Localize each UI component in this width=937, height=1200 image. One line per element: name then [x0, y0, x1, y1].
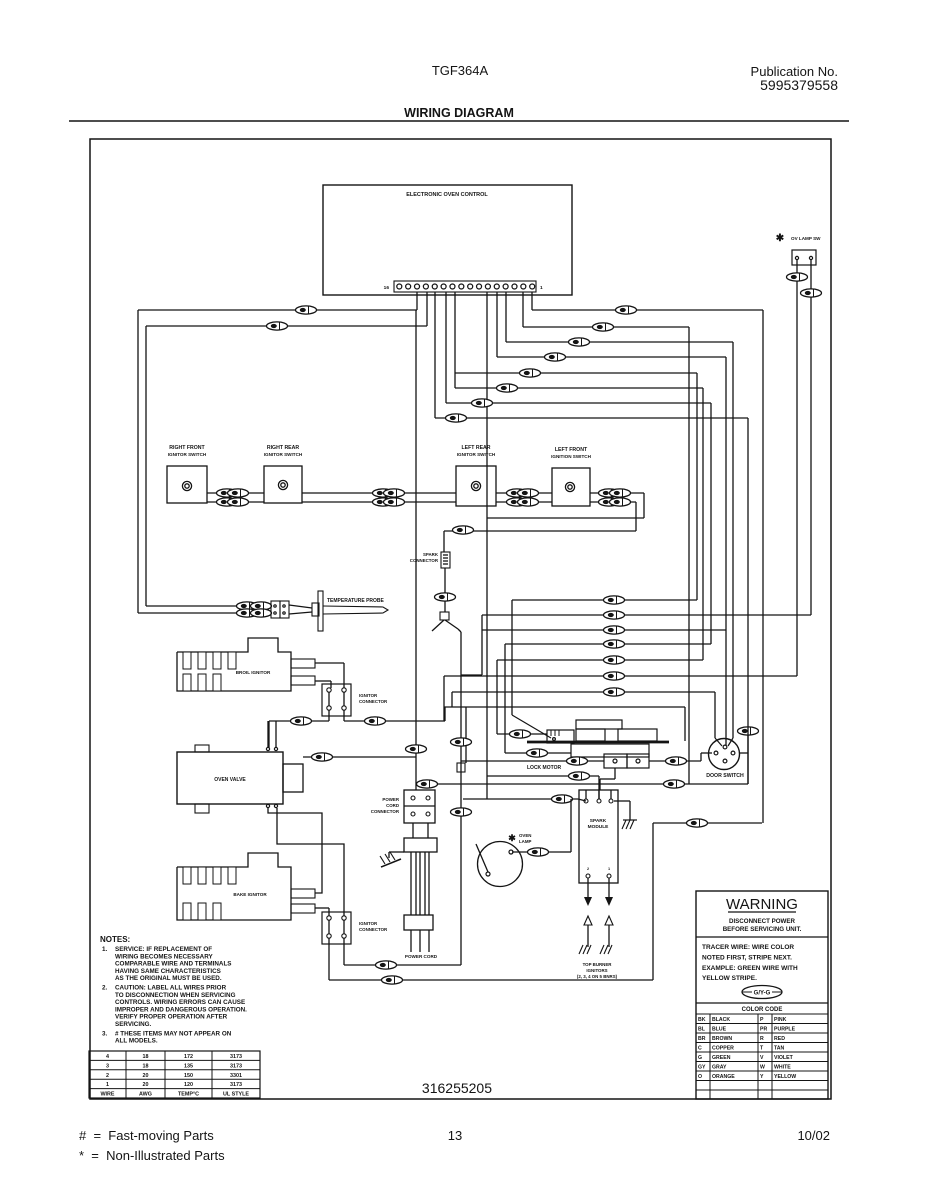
svg-text:5995379558: 5995379558 [760, 77, 838, 93]
svg-text:GREEN: GREEN [712, 1055, 731, 1061]
svg-text:COPPER: COPPER [712, 1046, 734, 1052]
svg-text:150: 150 [184, 1073, 193, 1079]
svg-text:W: W [760, 1065, 765, 1071]
svg-text:PR: PR [760, 1027, 767, 1033]
svg-text:3173: 3173 [230, 1082, 242, 1088]
svg-text:2: 2 [106, 1073, 109, 1079]
svg-text:TEMPERATURE PROBE: TEMPERATURE PROBE [327, 598, 385, 604]
svg-text:LEFT FRONT: LEFT FRONT [555, 447, 588, 453]
svg-text:POWER CORD: POWER CORD [405, 954, 438, 959]
svg-text:HAVING SAME CHARACTERISTICS: HAVING SAME CHARACTERISTICS [115, 968, 221, 975]
svg-text:IMPROPER AND DANGEROUS OPERATI: IMPROPER AND DANGEROUS OPERATION. [115, 1006, 247, 1013]
svg-text:172: 172 [184, 1054, 193, 1060]
svg-text:# THESE ITEMS MAY NOT APPEAR O: # THESE ITEMS MAY NOT APPEAR ON [115, 1030, 232, 1037]
svg-text:WIRING DIAGRAM: WIRING DIAGRAM [404, 106, 514, 120]
svg-text:(2, 3, 4 ON 5 BNRS): (2, 3, 4 ON 5 BNRS) [577, 974, 618, 979]
svg-text:SERVICE: IF REPLACEMENT OF: SERVICE: IF REPLACEMENT OF [115, 946, 212, 953]
svg-text:OV LAMP SW: OV LAMP SW [791, 236, 821, 241]
svg-text:135: 135 [184, 1063, 193, 1069]
svg-text:120: 120 [184, 1082, 193, 1088]
svg-text:TRACER WIRE: WIRE COLOR: TRACER WIRE: WIRE COLOR [702, 944, 794, 951]
svg-text:IGNITORS: IGNITORS [586, 968, 607, 973]
svg-text:ELECTRONIC OVEN CONTROL: ELECTRONIC OVEN CONTROL [406, 192, 488, 198]
svg-text:BEFORE SERVICING UNIT.: BEFORE SERVICING UNIT. [723, 926, 802, 933]
svg-text:✱: ✱ [508, 833, 516, 843]
svg-text:CONNECTOR: CONNECTOR [359, 699, 388, 704]
svg-text:TO DISCONNECTION WHEN SERVICIN: TO DISCONNECTION WHEN SERVICING [115, 992, 236, 999]
svg-text:WIRING BECOMES NECESSARY: WIRING BECOMES NECESSARY [115, 953, 214, 960]
svg-text:LEFT REAR: LEFT REAR [461, 445, 490, 451]
svg-text:G/Y-G: G/Y-G [754, 991, 771, 997]
svg-text:1: 1 [608, 867, 610, 871]
svg-text:IGNITOR SWITCH: IGNITOR SWITCH [168, 452, 207, 457]
svg-text:BROIL IGNITOR: BROIL IGNITOR [236, 670, 271, 675]
svg-text:PINK: PINK [774, 1017, 787, 1023]
svg-text:316255205: 316255205 [422, 1080, 492, 1096]
svg-text:18: 18 [143, 1054, 149, 1060]
svg-text:RIGHT REAR: RIGHT REAR [267, 445, 300, 451]
svg-text:P: P [760, 1017, 764, 1023]
svg-text:G: G [698, 1055, 702, 1061]
svg-text:VIOLET: VIOLET [774, 1055, 794, 1061]
svg-text:WHITE: WHITE [774, 1065, 791, 1071]
svg-text:3173: 3173 [230, 1063, 242, 1069]
svg-text:20: 20 [143, 1073, 149, 1079]
svg-text:3301: 3301 [230, 1073, 242, 1079]
svg-text:3: 3 [106, 1063, 109, 1069]
svg-text:✱: ✱ [776, 233, 785, 244]
svg-text:20: 20 [143, 1082, 149, 1088]
svg-text:3.: 3. [102, 1030, 108, 1037]
svg-text:BAKE IGNITOR: BAKE IGNITOR [233, 892, 267, 897]
svg-text:WARNING: WARNING [726, 896, 798, 913]
svg-text:CONNECTOR: CONNECTOR [371, 809, 400, 814]
svg-text:13: 13 [448, 1128, 462, 1143]
svg-text:2: 2 [587, 867, 589, 871]
svg-text:CORD: CORD [386, 803, 399, 808]
svg-text:YELLOW STRIPE.: YELLOW STRIPE. [702, 975, 757, 982]
svg-text:1.: 1. [102, 946, 108, 953]
svg-text:V: V [760, 1055, 764, 1061]
svg-text:CONTROLS. WIRING ERRORS CAN C: CONTROLS. WIRING ERRORS CAN CAUSE [115, 999, 245, 1006]
svg-text:DOOR SWITCH: DOOR SWITCH [706, 773, 744, 779]
svg-text:NOTED FIRST, STRIPE NEXT.: NOTED FIRST, STRIPE NEXT. [702, 954, 792, 961]
svg-text:COMPARABLE WIRE AND TERMINALS: COMPARABLE WIRE AND TERMINALS [115, 961, 232, 968]
svg-text:POWER: POWER [382, 797, 399, 802]
svg-text:ALL MODELS.: ALL MODELS. [115, 1038, 158, 1045]
svg-text:OVEN VALVE: OVEN VALVE [214, 777, 246, 783]
svg-text:LAMP: LAMP [519, 839, 532, 844]
svg-text:R: R [760, 1036, 764, 1042]
svg-text:IGNITOR: IGNITOR [359, 921, 378, 926]
svg-text:WIRE: WIRE [100, 1092, 114, 1098]
svg-text:10/02: 10/02 [797, 1128, 830, 1143]
svg-text:IGNITOR: IGNITOR [359, 693, 378, 698]
svg-text:# = Fast-moving Parts: # = Fast-moving Parts [79, 1128, 214, 1143]
svg-text:TOP BURNER: TOP BURNER [583, 962, 613, 967]
svg-text:GRAY: GRAY [712, 1065, 727, 1071]
svg-text:Y: Y [760, 1074, 764, 1080]
svg-text:EXAMPLE: GREEN WIRE WITH: EXAMPLE: GREEN WIRE WITH [702, 965, 798, 972]
svg-text:3173: 3173 [230, 1054, 242, 1060]
svg-text:16: 16 [384, 285, 390, 291]
svg-text:NOTES:: NOTES: [100, 935, 130, 944]
svg-text:TAN: TAN [774, 1046, 785, 1052]
svg-text:BROWN: BROWN [712, 1036, 732, 1042]
svg-text:1: 1 [540, 285, 543, 291]
svg-text:CAUTION: LABEL ALL WIRES PRI: CAUTION: LABEL ALL WIRES PRIOR [115, 985, 227, 992]
svg-text:C: C [698, 1046, 702, 1052]
svg-text:IGNITION SWITCH: IGNITION SWITCH [551, 454, 591, 459]
svg-text:BLACK: BLACK [712, 1017, 730, 1023]
svg-text:MODULE: MODULE [588, 824, 610, 830]
svg-text:SERVICING.: SERVICING. [115, 1021, 152, 1028]
svg-text:SPARK: SPARK [423, 552, 439, 557]
svg-text:TGF364A: TGF364A [432, 63, 489, 78]
svg-text:ORANGE: ORANGE [712, 1074, 735, 1080]
svg-text:BR: BR [698, 1036, 706, 1042]
svg-text:OVEN: OVEN [519, 833, 531, 838]
svg-text:CONNECTOR: CONNECTOR [359, 927, 388, 932]
svg-text:TEMP°C: TEMP°C [178, 1092, 199, 1098]
svg-text:2.: 2. [102, 985, 108, 992]
svg-text:LOCK MOTOR: LOCK MOTOR [527, 765, 561, 771]
svg-text:SPARK: SPARK [590, 818, 607, 824]
svg-text:IGNITOR SWITCH: IGNITOR SWITCH [457, 452, 496, 457]
svg-text:4: 4 [106, 1054, 109, 1060]
svg-text:PURPLE: PURPLE [774, 1027, 796, 1033]
svg-text:IGNITOR SWITCH: IGNITOR SWITCH [264, 452, 303, 457]
svg-text:AS THE ORIGINAL MUST BE USED.: AS THE ORIGINAL MUST BE USED. [115, 975, 222, 982]
svg-text:AWG: AWG [139, 1092, 152, 1098]
svg-text:BL: BL [698, 1027, 706, 1033]
svg-text:YELLOW: YELLOW [774, 1074, 796, 1080]
svg-text:RIGHT FRONT: RIGHT FRONT [169, 445, 205, 451]
svg-text:COLOR CODE: COLOR CODE [742, 1007, 783, 1013]
svg-text:* = Non-Illustrated Parts: * = Non-Illustrated Parts [79, 1148, 225, 1163]
svg-text:BLUE: BLUE [712, 1027, 727, 1033]
svg-text:BK: BK [698, 1017, 706, 1023]
svg-text:UL STYLE: UL STYLE [223, 1092, 249, 1098]
svg-text:CONNECTOR: CONNECTOR [410, 558, 439, 563]
svg-text:18: 18 [143, 1063, 149, 1069]
svg-text:O: O [698, 1074, 702, 1080]
svg-text:VERIFY PROPER OPERATION AFTER: VERIFY PROPER OPERATION AFTER [115, 1014, 228, 1021]
svg-text:GY: GY [698, 1065, 706, 1071]
svg-text:RED: RED [774, 1036, 785, 1042]
svg-text:DISCONNECT POWER: DISCONNECT POWER [729, 918, 796, 925]
svg-text:1: 1 [106, 1082, 109, 1088]
